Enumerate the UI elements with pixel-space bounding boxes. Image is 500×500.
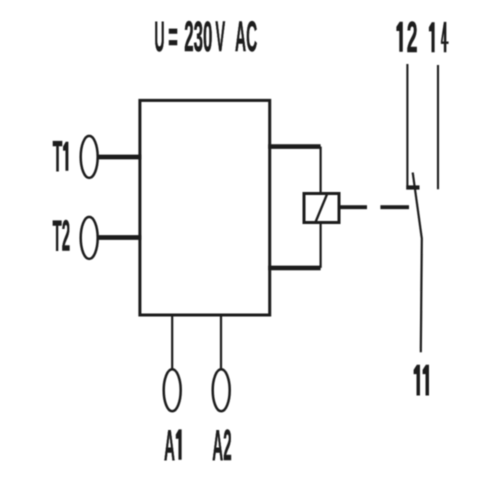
contact line 12	[406, 64, 408, 186]
wire A1	[171, 314, 173, 369]
svg-text:T2: T2	[53, 213, 71, 261]
contact line 14	[437, 65, 439, 189]
contact label 14	[429, 22, 449, 52]
mechanical link dash 2	[380, 205, 409, 209]
svg-text:T: T	[53, 133, 63, 181]
terminal A2	[213, 369, 230, 411]
terminal T1	[81, 136, 98, 178]
svg-text:U: U	[154, 14, 164, 61]
svg-text:=: =	[168, 14, 178, 61]
mechanical link dash 1	[341, 205, 368, 209]
svg-text:A: A	[164, 422, 175, 470]
label U = 230 V AC	[154, 14, 257, 61]
svg-text:AC: AC	[235, 14, 257, 61]
contact label 11	[414, 365, 429, 396]
wire relay vertical lower	[320, 223, 322, 268]
svg-text:2: 2	[407, 14, 418, 62]
contact 12 tip bar	[406, 185, 419, 189]
wire T2 to box	[98, 235, 141, 240]
wire relay bottom stub	[268, 266, 320, 271]
svg-text:V: V	[215, 14, 225, 61]
relay coil diagonal	[316, 194, 327, 222]
device box U1	[140, 100, 270, 315]
terminal label T2	[53, 213, 71, 261]
wire A2	[220, 314, 222, 369]
terminal label A2	[212, 422, 231, 470]
contact lever (movable contact)	[413, 173, 422, 353]
terminal A1	[164, 369, 181, 411]
terminal T2	[81, 217, 98, 259]
relay coil K1	[304, 194, 339, 223]
terminal label T1	[53, 133, 69, 181]
wire relay top stub	[268, 144, 320, 149]
svg-text:A2: A2	[212, 422, 231, 470]
wire T1 to box	[98, 155, 141, 160]
terminal label A1	[164, 422, 182, 470]
wire relay vertical upper	[320, 147, 322, 194]
contact label 12	[396, 14, 417, 62]
svg-text:230: 230	[184, 14, 212, 61]
